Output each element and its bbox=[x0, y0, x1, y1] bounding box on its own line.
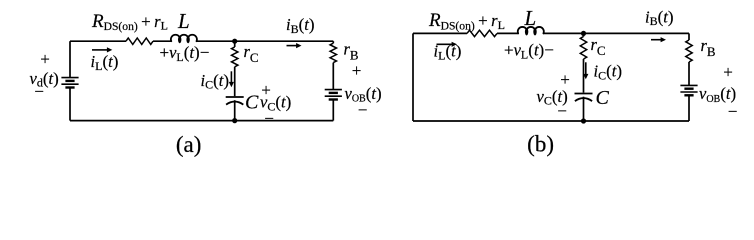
svg-text:iL(t): iL(t) bbox=[91, 52, 119, 73]
svg-text:C: C bbox=[596, 87, 610, 109]
svg-text:rB: rB bbox=[701, 36, 716, 59]
svg-text:L: L bbox=[524, 6, 537, 30]
svg-text:−: − bbox=[358, 101, 368, 120]
svg-text:C: C bbox=[245, 92, 259, 114]
svg-text:(a): (a) bbox=[176, 132, 202, 157]
svg-text:+: + bbox=[723, 63, 733, 82]
svg-text:iB(t): iB(t) bbox=[645, 7, 674, 28]
svg-text:L: L bbox=[177, 9, 190, 33]
svg-text:+vL(t)−: +vL(t)− bbox=[504, 41, 554, 62]
svg-text:+vL(t)−: +vL(t)− bbox=[160, 43, 210, 64]
svg-text:+: + bbox=[352, 61, 362, 80]
svg-text:−: − bbox=[557, 102, 567, 121]
svg-text:(b): (b) bbox=[527, 132, 554, 157]
svg-text:iB(t): iB(t) bbox=[286, 15, 315, 36]
svg-text:RDS(on) + rL: RDS(on) + rL bbox=[428, 10, 505, 32]
svg-text:iL(t): iL(t) bbox=[434, 42, 462, 63]
svg-text:−: − bbox=[264, 109, 274, 128]
svg-text:−: − bbox=[728, 102, 738, 121]
svg-text:iC(t): iC(t) bbox=[201, 71, 230, 92]
svg-text:rB: rB bbox=[344, 40, 359, 63]
svg-text:−: − bbox=[34, 82, 44, 101]
svg-text:+: + bbox=[40, 50, 50, 69]
svg-text:rC: rC bbox=[244, 42, 259, 65]
svg-text:rC: rC bbox=[591, 35, 606, 58]
svg-text:iC(t): iC(t) bbox=[594, 62, 623, 83]
svg-text:RDS(on) + rL: RDS(on) + rL bbox=[91, 11, 168, 33]
